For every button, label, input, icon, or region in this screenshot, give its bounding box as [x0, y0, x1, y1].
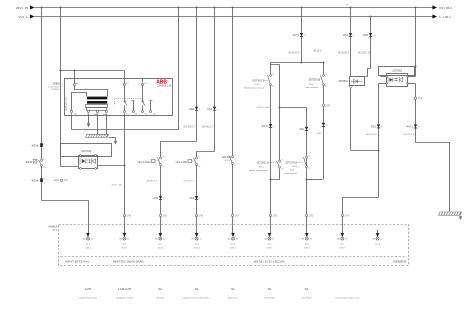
svg-text:-4S2: -4S2 — [152, 196, 158, 200]
junction bus P1 / rail R6 — [232, 7, 234, 9]
svg-text:-9S2: -9S2 — [188, 107, 194, 111]
junction bus P1 / rail R1 — [41, 7, 43, 9]
diode on Vb — [322, 123, 328, 127]
junction U3 rail / module corner — [415, 66, 417, 68]
svg-text:14: 14 — [162, 166, 164, 168]
svg-text:17B: 17B — [317, 133, 321, 135]
wire rail Va down — [301, 8, 303, 63]
svg-text:+E1:82 D 9: +E1:82 D 9 — [338, 52, 350, 54]
optocoupler arrows — [86, 159, 91, 163]
PLC terminal 2 input — [119, 233, 129, 249]
svg-text:4: 4 — [44, 183, 45, 185]
svg-text:CM-ENS.13S: CM-ENS.13S — [66, 97, 68, 111]
svg-text:+E1:4Q D 7: +E1:4Q D 7 — [202, 126, 215, 128]
relay contact 2 common from pin 25 — [142, 86, 144, 100]
junction Vg / coil return — [378, 150, 380, 152]
svg-text:40: 40 — [380, 239, 382, 241]
svg-text:13: 13 — [43, 159, 45, 161]
switch -2D7S62 contact — [268, 74, 275, 88]
svg-text:DRS120: DRS120 — [52, 89, 61, 91]
wire U3 top-right to bus rail — [408, 76, 416, 78]
wire tag column 6 — [269, 214, 277, 217]
earth electrode bar (hatched) — [86, 134, 109, 137]
optocoupler pin bottom-right — [95, 168, 97, 170]
svg-text:179.6: 179.6 — [375, 244, 381, 246]
svg-text:A6: A6 — [83, 238, 85, 241]
svg-text:11: 11 — [272, 74, 274, 76]
svg-text:33: 33 — [127, 239, 129, 241]
svg-text:+E1:45 D 9: +E1:45 D 9 — [366, 134, 378, 136]
svg-text:INPUT BYTE K=1: INPUT BYTE K=1 — [65, 259, 89, 263]
relay pin 18 — [132, 110, 134, 112]
svg-text:-3S7021: -3S7021 — [80, 149, 92, 153]
svg-text:+E1:1.4S9: +E1:1.4S9 — [175, 161, 187, 164]
switch -2D7S61 upper contact — [321, 74, 328, 88]
wire down to relay pin 15 — [124, 71, 126, 84]
wire bus P1 24V (top rail) — [35, 7, 433, 9]
wire tag on opto input wire — [53, 179, 68, 182]
relay electrode base — [87, 108, 107, 111]
wire rail R6 down — [232, 8, 234, 157]
wire Vc below switch — [270, 86, 272, 234]
svg-text:Warning motor network: Warning motor network — [244, 86, 265, 89]
wire Ve down — [306, 108, 308, 234]
optocoupler phototransistor — [92, 158, 96, 163]
svg-text:motor network: motor network — [305, 86, 318, 89]
wire tag column 7 — [305, 214, 313, 217]
svg-text:/137.2: /137.2 — [157, 247, 164, 249]
junction bus P1 / U3 rail — [415, 7, 417, 9]
PLC dashed separator — [61, 256, 407, 258]
module -2D7D81 box — [379, 67, 415, 76]
PLC terminal 6 input — [265, 233, 275, 249]
svg-text:Start Plate: Start Plate — [265, 297, 276, 300]
svg-text:-3S01: -3S01 — [25, 160, 33, 164]
relay electrode bar 1 — [87, 97, 107, 100]
wire from earth bar to arrow — [109, 138, 116, 141]
relay contact 2 lead 28 riser — [150, 101, 152, 111]
relay contact 1 lead 16 — [124, 106, 126, 111]
svg-text:Pe1.4: Pe1.4 — [254, 84, 260, 86]
switch S12 contact — [158, 156, 165, 168]
switch -2D7S75 B labels — [285, 161, 304, 175]
svg-text:-4S72: -4S72 — [292, 33, 299, 37]
svg-text:17A: 17A — [235, 214, 240, 217]
relay sensor wire from A1 wrap — [75, 86, 108, 97]
U3 pin bottom-right — [407, 83, 409, 85]
contact -K006 (lower) — [31, 178, 45, 184]
bus 0V left arrow — [30, 14, 35, 18]
relay coil diode glyph — [351, 79, 363, 83]
junction node A1 branch — [74, 70, 76, 72]
earth bar down arrow — [114, 141, 117, 145]
wire tag on Vb — [322, 104, 330, 107]
svg-text:SL: SL — [305, 287, 309, 291]
svg-text:-2D7S61 B: -2D7S61 B — [308, 77, 321, 81]
PLC terminal 7 input — [302, 233, 312, 249]
wire rail R2 down — [60, 8, 62, 167]
svg-text:-2D7S62 B: -2D7S62 B — [252, 79, 265, 83]
svg-text:CM-ENS.13S: CM-ENS.13S — [157, 85, 172, 88]
diode -4S72 on Vh — [406, 125, 420, 129]
wire R4 jog to switch column — [161, 142, 197, 158]
wire rail R3 up to bus P1 — [178, 8, 180, 130]
relay pin 26 — [141, 110, 143, 112]
U3 pin top-left — [386, 76, 388, 78]
svg-text:LVR: LVR — [85, 287, 92, 291]
svg-text:-K006.2: -K006.2 — [48, 224, 58, 228]
svg-text:3: 3 — [234, 155, 235, 157]
svg-text:17B: 17B — [273, 214, 278, 217]
wire tag on Vh — [414, 97, 422, 100]
wire Vb down from H1 — [323, 63, 325, 75]
svg-text:L- / 06.1: L- / 06.1 — [440, 15, 452, 19]
wire rail 8S2 down — [370, 17, 372, 69]
diode on Vg — [370, 124, 383, 128]
wire Vg to terminal 8 column — [343, 198, 379, 234]
diode -4S1 — [298, 127, 311, 131]
relay electrode white bar — [86, 105, 108, 108]
wire H1 horizontal — [271, 62, 324, 64]
relay electrode lead C — [88, 110, 90, 112]
svg-text:-4S10 D: -4S10 D — [313, 50, 322, 52]
svg-text:-9S1: -9S1 — [206, 107, 212, 111]
svg-text:SM 321 DI 32 x DC24V: SM 321 DI 32 x DC24V — [254, 259, 285, 263]
wire 8S2 jog to coil right pin — [365, 69, 371, 77]
svg-text:14: 14 — [43, 167, 45, 169]
svg-text:-4S72: -4S72 — [261, 124, 268, 128]
svg-text:4: 4 — [234, 165, 235, 167]
svg-text:Control panel strobe noise: Control panel strobe noise — [335, 297, 360, 300]
diode -4S72 (lower) — [261, 124, 275, 128]
wire R1 below -3S01 — [41, 167, 43, 179]
wire Vd bottom return to Vc — [271, 169, 280, 180]
svg-text:Congestion melt B: Congestion melt B — [116, 297, 134, 300]
wire R1 down to corner — [41, 183, 43, 201]
diode -9S1 — [206, 107, 219, 111]
svg-text:SIEMENS: SIEMENS — [393, 259, 407, 263]
earth bar right down arrow — [459, 216, 462, 220]
svg-text:14: 14 — [198, 166, 200, 168]
bus P1 right arrow — [432, 5, 437, 9]
wire R1 between -K006 and -3S01 — [41, 147, 43, 160]
contact -K006 (upper) — [31, 143, 45, 149]
junction bus P1 / rail Va — [301, 7, 303, 9]
wire U3 bottom-left to Vg — [379, 83, 387, 85]
optocoupler pin bottom-left — [80, 168, 82, 170]
svg-text:+E1:4Q D 7: +E1:4Q D 7 — [183, 126, 196, 128]
wire R5 jog to switch column — [197, 152, 215, 158]
svg-text:12: 12 — [272, 86, 274, 88]
svg-text:SL: SL — [158, 287, 162, 291]
module -3S7021 box — [61, 144, 112, 157]
U3 arrows — [394, 78, 398, 82]
wire coil bottom down — [350, 89, 352, 151]
svg-text:37: 37 — [272, 239, 274, 241]
svg-text:-8S2: -8S2 — [362, 33, 368, 37]
wire below switch Q5 — [232, 165, 234, 234]
PLC terminal 3 input — [155, 233, 165, 249]
svg-text:34: 34 — [163, 239, 165, 241]
svg-text:12: 12 — [308, 168, 310, 170]
svg-text:A6: A6 — [119, 238, 121, 241]
svg-text:Kolben diesel t trap: Kolben diesel t trap — [79, 297, 98, 300]
svg-text:A6: A6 — [155, 238, 157, 241]
svg-text:/137.3: /137.3 — [194, 247, 201, 249]
svg-text:-4S3: -4S3 — [188, 196, 194, 200]
svg-text:13: 13 — [198, 156, 200, 158]
svg-text:17B: 17B — [127, 214, 132, 217]
svg-text:-K006: -K006 — [31, 144, 39, 148]
svg-text:/137.4: /137.4 — [230, 247, 237, 249]
svg-text:P2 / 06.1: P2 / 06.1 — [440, 6, 453, 10]
svg-text:+E1:82 D 9: +E1:82 D 9 — [288, 52, 300, 54]
wire A2 return horizontal — [72, 129, 179, 131]
svg-text:A6: A6 — [192, 238, 194, 241]
relay pin C — [87, 110, 89, 112]
PLC terminal 5 input — [228, 233, 238, 249]
wire U3 bottom-right to Vh — [408, 83, 416, 85]
junction bus P1 / rail 8S1 — [350, 7, 352, 9]
wire coil to Vg junction — [351, 150, 379, 152]
relay electrode lead MIN — [106, 110, 108, 112]
svg-text:Motor lane: Motor lane — [228, 297, 239, 300]
svg-text:+E1:4D D 7: +E1:4D D 7 — [146, 180, 158, 182]
switch +E1:1.4S9 actuator — [175, 159, 194, 164]
PLC terminal 8 input — [337, 233, 347, 249]
svg-text:S3 level: S3 level — [157, 298, 165, 300]
svg-text:LAR-LVR: LAR-LVR — [118, 287, 132, 291]
svg-text:17A: 17A — [64, 179, 69, 182]
svg-text:Pe1.1: Pe1.1 — [259, 166, 265, 168]
svg-text:A6: A6 — [373, 238, 375, 241]
switch Q5 contact — [230, 155, 236, 167]
svg-text:17B: 17B — [163, 214, 168, 217]
wire tag column 4 — [195, 214, 203, 217]
svg-text:24V1. P1: 24V1. P1 — [16, 6, 29, 10]
wire bus 0V (second rail) — [35, 16, 433, 18]
wire Vd branch from Vc — [271, 65, 280, 162]
svg-text:17B: 17B — [309, 214, 314, 217]
switch -2D7S61 lower dash link — [270, 162, 277, 164]
svg-text:/137.5: /137.5 — [267, 247, 274, 249]
relay electrode lead MAX — [97, 110, 99, 112]
svg-text:A6: A6 — [302, 238, 304, 241]
wire tag column 5 — [231, 214, 239, 217]
svg-text:-8S1: -8S1 — [370, 125, 376, 129]
svg-text:-2D7S75 B: -2D7S75 B — [285, 161, 298, 165]
svg-text:+E1 D 17B: +E1 D 17B — [111, 185, 122, 187]
wire rail R5 down — [214, 8, 216, 152]
relay pin MAX — [96, 110, 98, 112]
PLC terminal 9 input — [373, 230, 383, 246]
svg-text:39: 39 — [345, 239, 347, 241]
wire from pin MAX to earth electrode bar — [97, 114, 99, 135]
optocoupler LED symbol — [80, 158, 85, 164]
svg-text:/137.0: /137.0 — [85, 247, 92, 249]
svg-text:11: 11 — [325, 74, 327, 76]
diode -8S1 — [342, 33, 355, 37]
relay pin A2 — [70, 110, 72, 112]
svg-text:17: 17 — [308, 156, 310, 158]
PLC terminal 1 input — [83, 233, 93, 249]
wire below switch S9 — [196, 166, 198, 234]
svg-text:17B: 17B — [326, 104, 331, 107]
junction bus P1 / rail R4 — [196, 7, 198, 9]
svg-text:MAX: MAX — [94, 113, 99, 116]
svg-text:-2D7B91: -2D7B91 — [338, 79, 349, 83]
svg-text:Spring motor network: Spring motor network — [249, 169, 268, 172]
switch -2D7S62 B labels — [244, 79, 268, 90]
wire Ve branch horizontal — [280, 107, 307, 109]
wire branch to relay terminals A1 and 15 — [61, 70, 125, 72]
relay pin MIN — [105, 110, 107, 112]
junction bus 0V / rail 8S2 — [370, 16, 372, 18]
svg-text:+E1:4I D 7: +E1:4I D 7 — [183, 180, 194, 182]
wire from pin C with arrow stub — [88, 114, 90, 124]
wire Vh down — [415, 84, 417, 143]
switch S9 contact — [194, 156, 201, 168]
relay contact 2 lead 26 — [142, 106, 144, 111]
svg-text:SL: SL — [195, 287, 199, 291]
junction bus P1 / rail R3 — [178, 7, 180, 9]
svg-text:+E1:4Q: +E1:4Q — [224, 160, 231, 162]
svg-text:+E1:45 D 9: +E1:45 D 9 — [403, 134, 415, 136]
svg-text:-2D7S61 B: -2D7S61 B — [256, 161, 269, 165]
wire down to relay pin A1 — [74, 71, 76, 84]
wire R1 horizontal run to terminal 1 column — [42, 200, 89, 202]
optocoupler pin top-left — [80, 155, 82, 157]
bus P1 left arrow — [30, 5, 35, 9]
wire from A2 down — [71, 114, 73, 130]
svg-text:SL: SL — [268, 287, 272, 291]
svg-text:Pe1.4: Pe1.4 — [292, 166, 298, 168]
svg-text:12: 12 — [325, 86, 327, 88]
junction Va / H1 — [301, 62, 303, 64]
relay contact 1 common from pin 15 — [124, 86, 126, 100]
svg-text:38: 38 — [309, 239, 311, 241]
svg-text:2: 2 — [44, 147, 45, 149]
junction R2 / relay supply branch — [60, 70, 62, 72]
svg-text:35: 35 — [199, 239, 201, 241]
junction Ve / Vb return — [306, 179, 308, 181]
wire U3 top-left stub — [381, 76, 387, 78]
svg-text:A6: A6 — [228, 238, 230, 241]
optocoupler U3 box — [387, 74, 408, 87]
svg-text:+E1:1.3S12: +E1:1.3S12 — [137, 161, 151, 164]
junction bus P1 / rail R5 — [214, 7, 216, 9]
U3 pin top-right — [407, 76, 409, 78]
svg-text:32: 32 — [91, 239, 93, 241]
svg-text:21: 21 — [281, 160, 283, 162]
wire rail R4 down — [196, 8, 198, 142]
diode -9S2 — [188, 107, 201, 111]
switch -2D7S61 lower contact — [277, 160, 284, 171]
svg-text:17A: 17A — [345, 214, 350, 217]
svg-text:3: 3 — [44, 179, 45, 181]
svg-text:36: 36 — [236, 239, 238, 241]
svg-text:-8S1: -8S1 — [342, 33, 348, 37]
wire down to PLC terminal 1 — [88, 201, 90, 234]
diode -4S3 — [188, 196, 201, 200]
wire tag rail 16 — [123, 214, 131, 217]
svg-text:+E1:82 D 10: +E1:82 D 10 — [358, 52, 372, 54]
svg-text:-4S72: -4S72 — [406, 125, 413, 129]
optocoupler U2 box — [79, 156, 98, 169]
relay mechanical link dashes — [114, 99, 116, 106]
relay pin 16 — [123, 110, 125, 112]
relay pin A1 — [73, 83, 75, 85]
bus 0V right arrow — [432, 14, 437, 18]
svg-text:/137.7: /137.7 — [339, 247, 346, 249]
optocoupler pin top-right — [95, 155, 97, 157]
wire rail from relay pin 16 down to PLC terminal 2 — [124, 114, 126, 234]
junction Vd / Ve branch — [279, 107, 281, 109]
svg-text:-K006: -K006 — [31, 179, 39, 183]
svg-text:/17.1: /17.1 — [52, 230, 58, 232]
wire Vh to earth drop — [416, 143, 450, 212]
svg-text:Brake session confirmation b: Brake session confirmation b — [183, 297, 211, 300]
wire optocoupler output to rail 16 — [98, 165, 125, 167]
relay pin 25 stub — [142, 79, 144, 83]
svg-text:/137.6: /137.6 — [304, 247, 311, 249]
relay electrode bar 2 — [87, 101, 107, 104]
junction H1 / Vb — [323, 62, 325, 64]
svg-text:13: 13 — [162, 156, 164, 158]
switch -2D7S61 B (upper) labels — [305, 77, 320, 89]
switch +E1:1.3S12 actuator — [137, 159, 158, 164]
svg-text:Stop Plate: Stop Plate — [302, 297, 312, 300]
svg-text:0V1. L-: 0V1. L- — [19, 15, 29, 19]
relay pin 25 — [141, 83, 143, 85]
relay contact 2 blade — [143, 100, 145, 106]
PLC module dashed box — [59, 225, 409, 266]
svg-text:22: 22 — [281, 168, 283, 170]
svg-text:A6: A6 — [337, 238, 339, 241]
diode -4S2 — [152, 196, 165, 200]
wire R2 to optocoupler input — [61, 166, 79, 168]
wire below switch S12 — [160, 166, 162, 234]
coil polarity triangle — [349, 86, 353, 89]
svg-text:-4S1: -4S1 — [298, 127, 304, 131]
switch -2D7S75 contact — [304, 156, 311, 170]
diode -8S2 — [362, 33, 376, 37]
earth electrode bar right (hatched) — [439, 212, 462, 215]
junction opto output / rail 16 — [124, 165, 126, 167]
junction bus P1 / rail R2 — [60, 7, 62, 9]
relay sensor wire from A2 riser — [72, 93, 87, 111]
svg-text:1: 1 — [44, 144, 45, 146]
svg-text:x²: x² — [346, 4, 348, 7]
wire Vb return horizontal — [307, 179, 323, 181]
PLC terminal 4 input — [192, 233, 202, 249]
svg-text:motor network: motor network — [285, 172, 298, 175]
svg-text:SL: SL — [231, 287, 235, 291]
svg-text:-19B3: -19B3 — [51, 82, 60, 86]
wire rail R1 down from bus P1 — [41, 8, 43, 144]
U3 LED symbol — [388, 77, 393, 83]
relay contact 1 lead 18 riser — [133, 101, 135, 111]
svg-text:-4S10 D 17A: -4S10 D 17A — [256, 106, 269, 109]
svg-text:-2D7D81: -2D7D81 — [391, 69, 402, 73]
diode -4S72 (top) — [292, 33, 306, 37]
U3 phototransistor — [399, 77, 402, 83]
relay pin 15 — [123, 83, 125, 85]
svg-text:+4Q1: +4Q1 — [53, 179, 60, 182]
wire Vb below switch — [323, 86, 325, 180]
relay contact 1 blade — [125, 100, 127, 106]
wire Vc down from H1 — [270, 63, 272, 75]
